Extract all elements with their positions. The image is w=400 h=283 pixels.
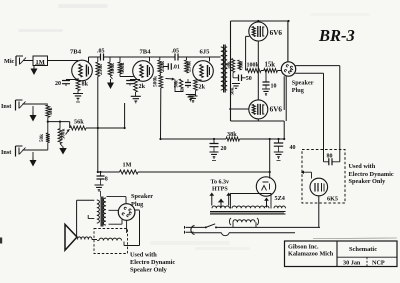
svg-text:.01: .01 — [173, 65, 180, 71]
svg-text:500k: 500k — [110, 63, 116, 74]
svg-text:Electro Dynamic: Electro Dynamic — [349, 171, 394, 178]
svg-text:Schematic: Schematic — [349, 246, 377, 253]
svg-text:BR-3: BR-3 — [318, 26, 355, 45]
svg-text:Speaker: Speaker — [131, 193, 153, 200]
svg-text:Gibson Inc.: Gibson Inc. — [288, 243, 319, 250]
svg-text:Speaker: Speaker — [292, 80, 314, 87]
svg-text:NCP: NCP — [372, 260, 385, 267]
svg-text:250k: 250k — [160, 61, 166, 72]
svg-text:8: 8 — [105, 177, 108, 183]
svg-text:Inst: Inst — [1, 103, 12, 110]
svg-text:30 Jan: 30 Jan — [343, 260, 361, 267]
svg-text:.05: .05 — [172, 48, 180, 54]
svg-text:Inst: Inst — [1, 149, 12, 156]
svg-text:10: 10 — [271, 83, 277, 89]
svg-text:Electro Dynamic: Electro Dynamic — [130, 259, 175, 266]
svg-text:56k: 56k — [74, 118, 84, 125]
svg-text:1M: 1M — [123, 162, 132, 169]
svg-text:8k: 8k — [82, 81, 89, 88]
svg-text:250k: 250k — [186, 61, 192, 72]
svg-text:100k: 100k — [247, 62, 260, 68]
svg-text:To 6.3v: To 6.3v — [211, 179, 229, 185]
svg-text:2k: 2k — [139, 83, 146, 90]
svg-text:500k: 500k — [153, 76, 159, 87]
svg-text:80: 80 — [327, 154, 333, 160]
svg-text:250k: 250k — [98, 64, 104, 75]
svg-text:Mic: Mic — [4, 58, 15, 65]
svg-text:50: 50 — [246, 76, 252, 82]
svg-text:7B4: 7B4 — [140, 48, 152, 55]
svg-text:20: 20 — [55, 81, 61, 87]
svg-text:.05: .05 — [97, 48, 105, 54]
svg-text:50k: 50k — [48, 107, 54, 115]
svg-text:Plug: Plug — [131, 201, 144, 208]
svg-text:HTPS: HTPS — [212, 187, 228, 193]
svg-text:Plug: Plug — [292, 87, 305, 94]
svg-text:2k: 2k — [199, 83, 206, 90]
svg-text:6J5: 6J5 — [200, 48, 211, 55]
svg-text:6K5: 6K5 — [327, 196, 338, 203]
svg-text:Used with: Used with — [130, 252, 157, 259]
svg-text:40: 40 — [290, 145, 296, 151]
svg-text:Used with: Used with — [349, 163, 376, 170]
svg-text:50k: 50k — [39, 134, 45, 142]
svg-text:Speaker Only: Speaker Only — [130, 266, 168, 273]
svg-text:7B4: 7B4 — [70, 48, 82, 55]
svg-text:Speaker Only: Speaker Only — [349, 178, 387, 185]
svg-text:50k: 50k — [240, 61, 245, 69]
svg-text:38k: 38k — [227, 131, 237, 138]
svg-text:15k: 15k — [265, 62, 276, 69]
svg-text:6V6: 6V6 — [270, 29, 283, 37]
svg-text:6V6: 6V6 — [270, 106, 283, 114]
svg-text:50k: 50k — [175, 80, 180, 88]
svg-text:50k.: 50k. — [230, 87, 235, 96]
svg-text:500k: 500k — [120, 62, 126, 73]
svg-text:5Z4: 5Z4 — [275, 195, 285, 202]
svg-text:Kalamazoo Mich: Kalamazoo Mich — [288, 251, 334, 258]
svg-text:20: 20 — [221, 146, 227, 152]
svg-text:50k: 50k — [227, 61, 232, 69]
